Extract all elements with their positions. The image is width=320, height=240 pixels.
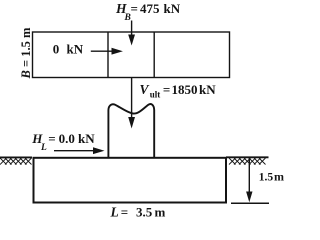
ground hatch right [229, 158, 266, 165]
column right edge line in plan [153, 32, 155, 78]
svg-text:=: = [131, 1, 138, 16]
svg-text:ult: ult [150, 90, 161, 100]
arrow H_L (points right at column base) [54, 150, 94, 152]
svg-text:1850: 1850 [172, 82, 198, 97]
svg-text:3.5: 3.5 [136, 205, 153, 220]
svg-text:V: V [140, 82, 150, 97]
ground line left [0, 156, 32, 158]
footing bottom level extension line [231, 202, 269, 204]
footing plan rectangle (top view, B direction) [33, 32, 230, 78]
dimension arrow 1.5 m depth (points down) [248, 158, 250, 193]
svg-text:kN: kN [164, 1, 181, 16]
svg-text:L: L [40, 143, 47, 153]
svg-text:L: L [110, 205, 119, 220]
column left edge line in plan [107, 32, 109, 78]
svg-text:m: m [155, 205, 166, 220]
svg-text:B = 1.5 m: B = 1.5 m [19, 27, 33, 79]
svg-text:kN: kN [67, 42, 84, 57]
arrow 0 kN (points right) [91, 50, 113, 52]
svg-text:1.5: 1.5 [259, 171, 274, 183]
svg-text:0.0: 0.0 [59, 131, 75, 146]
svg-text:=: = [163, 82, 170, 97]
svg-text:475: 475 [140, 1, 160, 16]
svg-text:kN: kN [78, 131, 95, 146]
svg-text:kN: kN [199, 82, 216, 97]
ground line right [226, 156, 269, 158]
ground hatch left [0, 158, 32, 165]
footing rectangle (elevation) [34, 158, 227, 203]
column (with break squiggle at top) [108, 104, 154, 157]
svg-text:m: m [274, 169, 284, 183]
svg-text:=: = [121, 205, 128, 220]
svg-text:0: 0 [53, 42, 60, 57]
arrow V_ult (points down onto column) [131, 78, 133, 119]
svg-text:=: = [48, 131, 55, 146]
arrow H_B (points down into plan rect) [131, 21, 133, 37]
